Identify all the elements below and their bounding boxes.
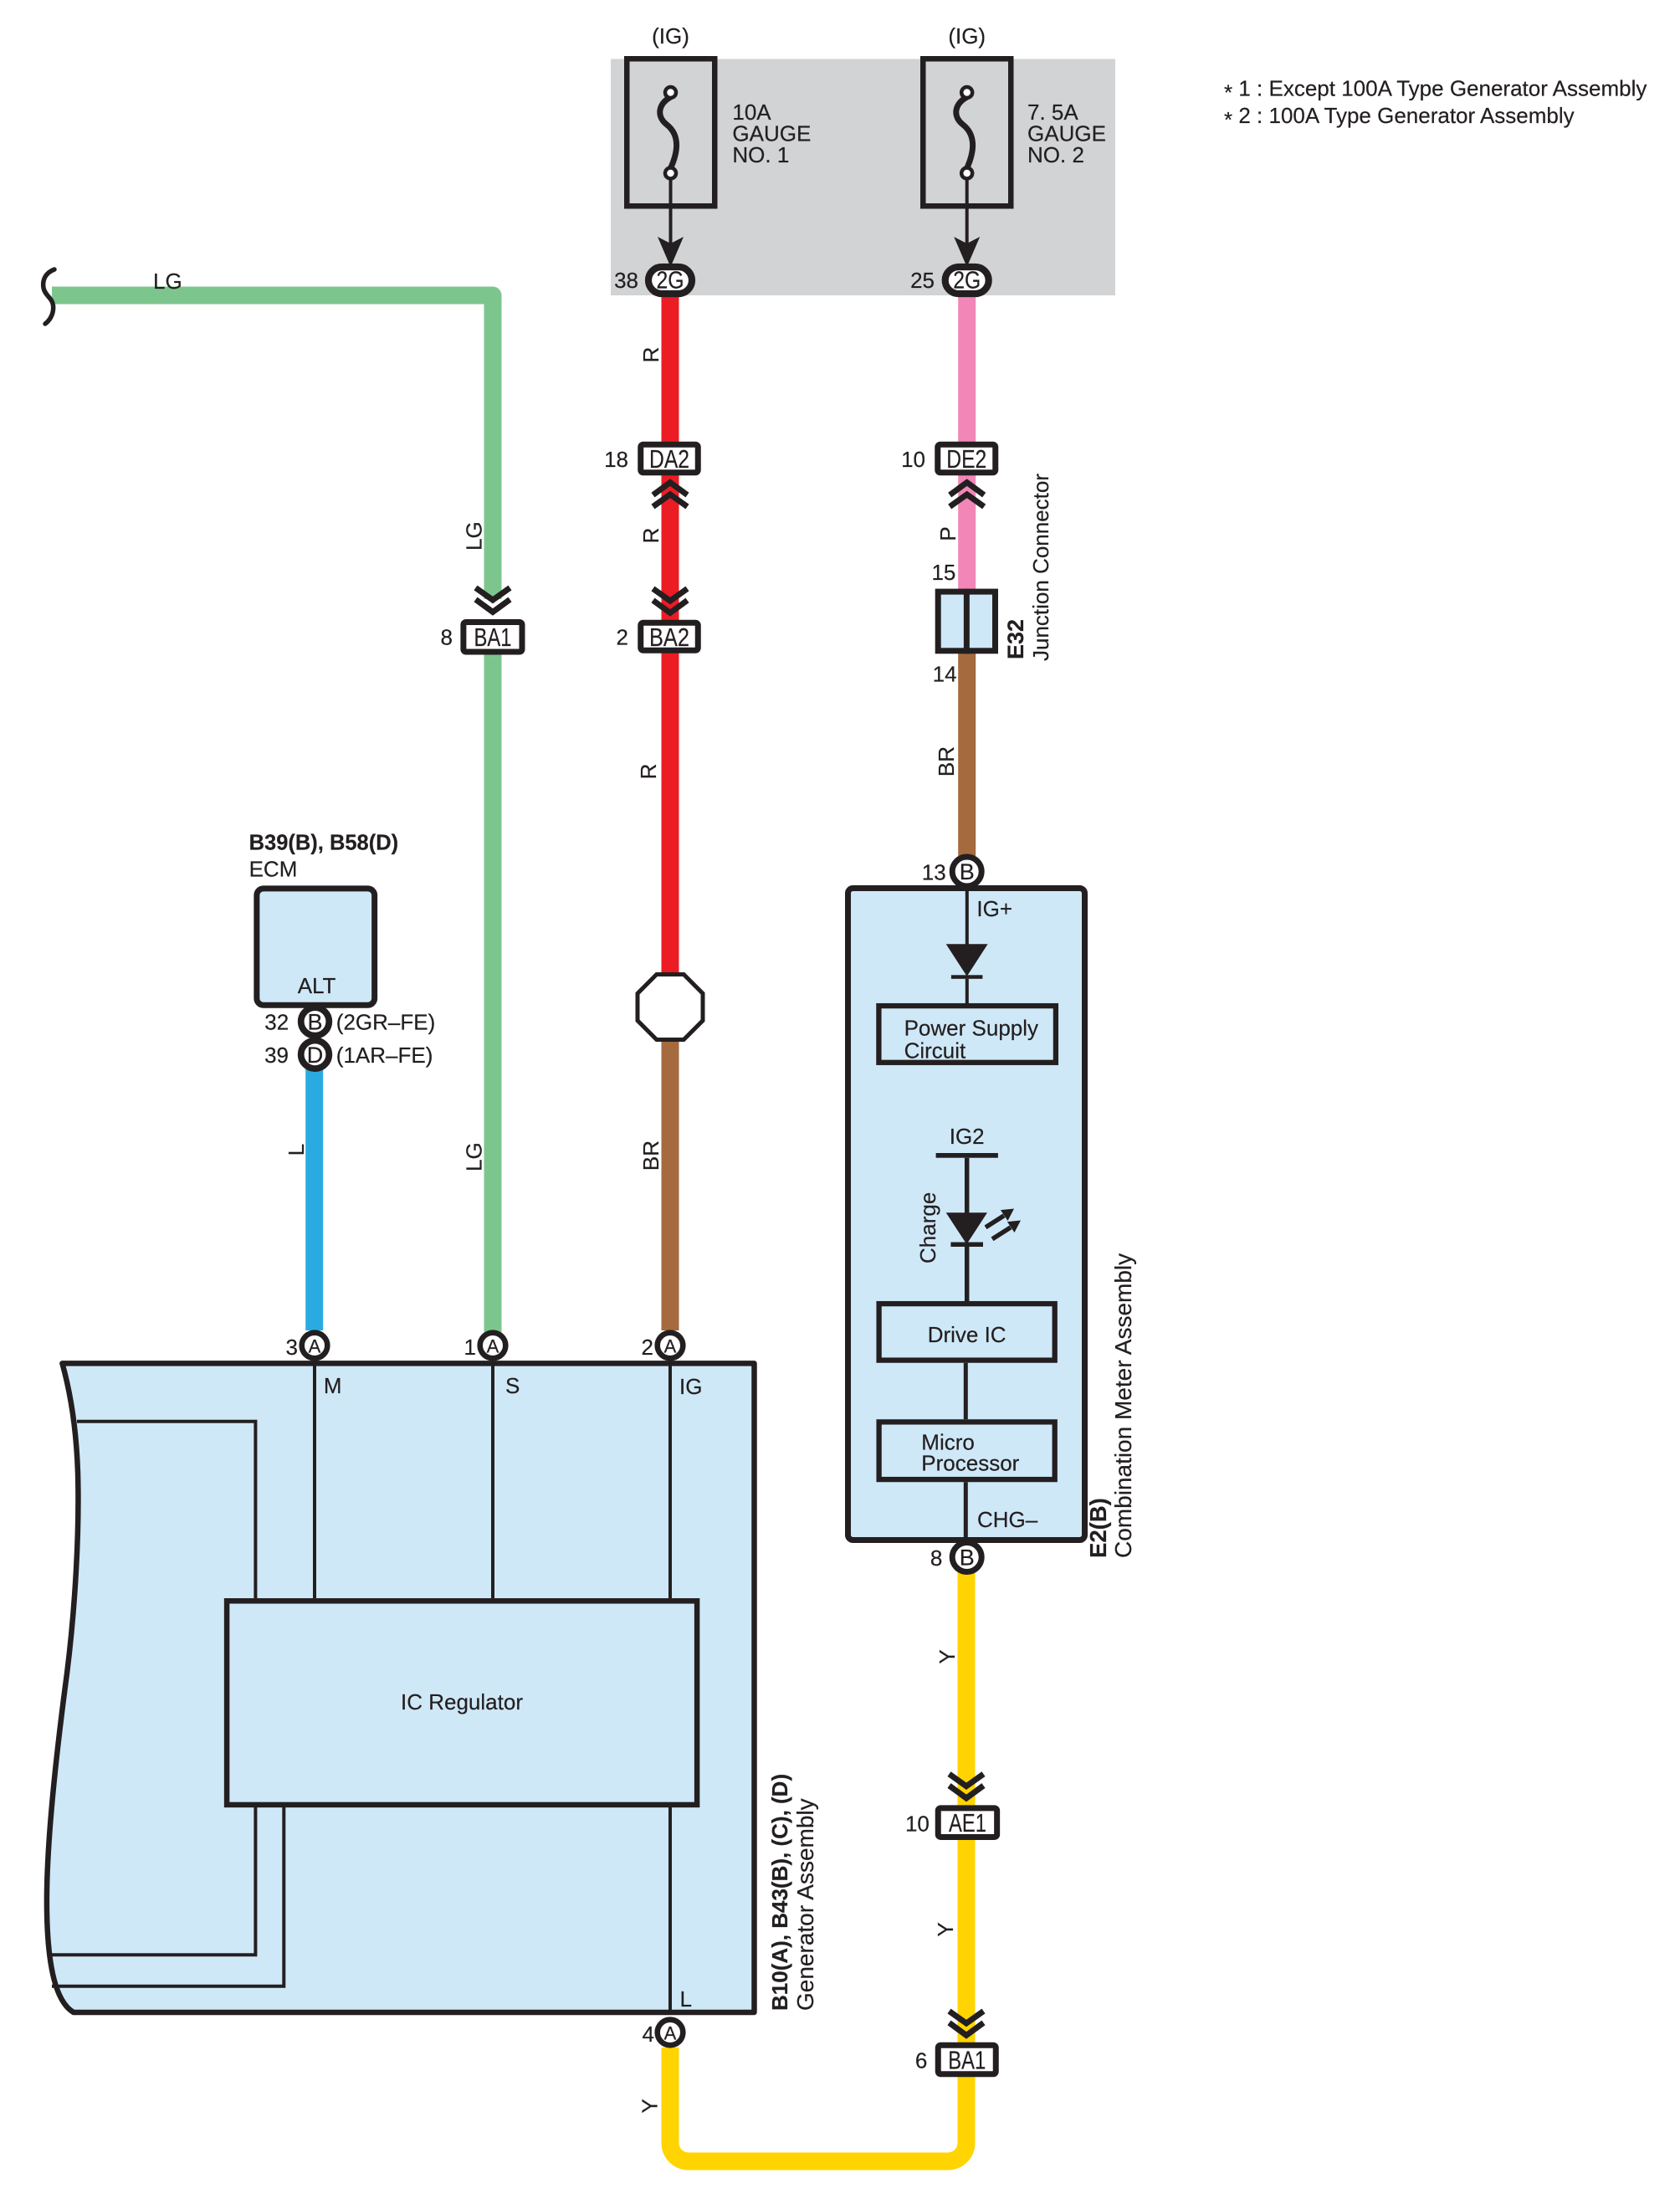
svg-text:2G: 2G [657, 268, 684, 295]
svg-text:14: 14 [933, 662, 957, 687]
svg-text:Y: Y [638, 2099, 663, 2113]
svg-text:39: 39 [264, 1043, 289, 1068]
svg-text:(2GR–FE): (2GR–FE) [336, 1009, 435, 1034]
svg-text:E2(B): E2(B) [1085, 1498, 1111, 1558]
svg-text:32: 32 [264, 1009, 289, 1034]
svg-text:Generator Assembly: Generator Assembly [792, 1798, 818, 2011]
svg-text:(IG): (IG) [948, 23, 986, 49]
svg-text:1: 1 [464, 1335, 476, 1360]
svg-text:B10(A), B43(B), (C), (D): B10(A), B43(B), (C), (D) [767, 1774, 792, 2011]
svg-text:10: 10 [901, 447, 925, 472]
svg-text:* 2 : 100A Type Generator Asse: * 2 : 100A Type Generator Assembly [1224, 103, 1575, 132]
svg-text:B: B [960, 1545, 975, 1571]
svg-text:4: 4 [643, 2022, 654, 2047]
svg-text:R: R [638, 347, 663, 363]
svg-text:A: A [664, 2023, 677, 2044]
svg-text:IC Regulator: IC Regulator [401, 1689, 523, 1714]
svg-text:DA2: DA2 [649, 444, 689, 474]
svg-text:BR: BR [638, 1140, 663, 1171]
svg-text:B39(B), B58(D): B39(B), B58(D) [249, 832, 399, 855]
svg-text:DE2: DE2 [946, 444, 986, 474]
svg-text:Power Supply: Power Supply [904, 1016, 1038, 1041]
svg-text:6: 6 [915, 2048, 927, 2073]
svg-text:B: B [960, 859, 975, 884]
svg-text:2: 2 [642, 1335, 653, 1360]
svg-text:Processor: Processor [921, 1451, 1019, 1476]
svg-text:Circuit: Circuit [904, 1038, 966, 1063]
svg-text:2G: 2G [953, 268, 981, 295]
svg-text:8: 8 [930, 1545, 942, 1571]
svg-text:Drive IC: Drive IC [928, 1322, 1006, 1347]
svg-text:LG: LG [462, 521, 487, 551]
svg-text:NO. 1: NO. 1 [732, 142, 789, 167]
svg-text:15: 15 [931, 560, 955, 585]
svg-text:CHG–: CHG– [977, 1507, 1038, 1532]
svg-text:13: 13 [922, 860, 946, 885]
svg-text:M: M [324, 1373, 342, 1398]
svg-text:(IG): (IG) [652, 23, 689, 49]
svg-text:Y: Y [935, 1649, 960, 1663]
svg-text:Y: Y [933, 1922, 958, 1936]
svg-text:ECM: ECM [249, 857, 298, 882]
svg-text:P: P [935, 526, 960, 541]
svg-text:IG: IG [679, 1374, 702, 1399]
svg-text:NO. 2: NO. 2 [1027, 142, 1084, 167]
svg-text:Junction Connector: Junction Connector [1028, 474, 1053, 661]
svg-text:L: L [284, 1144, 309, 1156]
svg-text:3: 3 [286, 1335, 298, 1360]
svg-text:10: 10 [905, 1811, 930, 1836]
svg-text:BA1: BA1 [474, 623, 512, 652]
svg-text:L: L [680, 1986, 692, 2012]
svg-text:8: 8 [441, 625, 453, 650]
svg-text:BA1: BA1 [948, 2046, 986, 2075]
svg-text:Charge: Charge [915, 1192, 940, 1263]
svg-text:R: R [638, 528, 663, 544]
svg-text:D: D [307, 1043, 324, 1068]
svg-text:ALT: ALT [298, 973, 336, 998]
svg-text:S: S [505, 1373, 520, 1398]
svg-text:LG: LG [153, 269, 182, 294]
svg-text:2: 2 [617, 625, 628, 650]
svg-text:* 1 : Except 100A Type Generat: * 1 : Except 100A Type Generator Assembl… [1224, 76, 1647, 105]
svg-text:B: B [307, 1009, 322, 1034]
svg-text:IG+: IG+ [976, 896, 1012, 921]
svg-text:LG: LG [462, 1142, 487, 1171]
svg-text:25: 25 [910, 268, 935, 293]
svg-text:18: 18 [604, 447, 628, 472]
svg-text:A: A [664, 1336, 677, 1357]
svg-text:BA2: BA2 [649, 623, 689, 652]
svg-text:Combination Meter Assembly: Combination Meter Assembly [1110, 1253, 1136, 1558]
svg-text:38: 38 [614, 268, 638, 293]
svg-text:BR: BR [934, 746, 959, 776]
svg-text:E32: E32 [1003, 619, 1028, 659]
svg-text:(1AR–FE): (1AR–FE) [336, 1043, 433, 1068]
svg-text:A: A [487, 1336, 499, 1357]
svg-text:R: R [636, 764, 661, 780]
svg-text:IG2: IG2 [950, 1124, 985, 1149]
svg-text:AE1: AE1 [949, 1808, 986, 1837]
svg-text:A: A [309, 1336, 321, 1357]
